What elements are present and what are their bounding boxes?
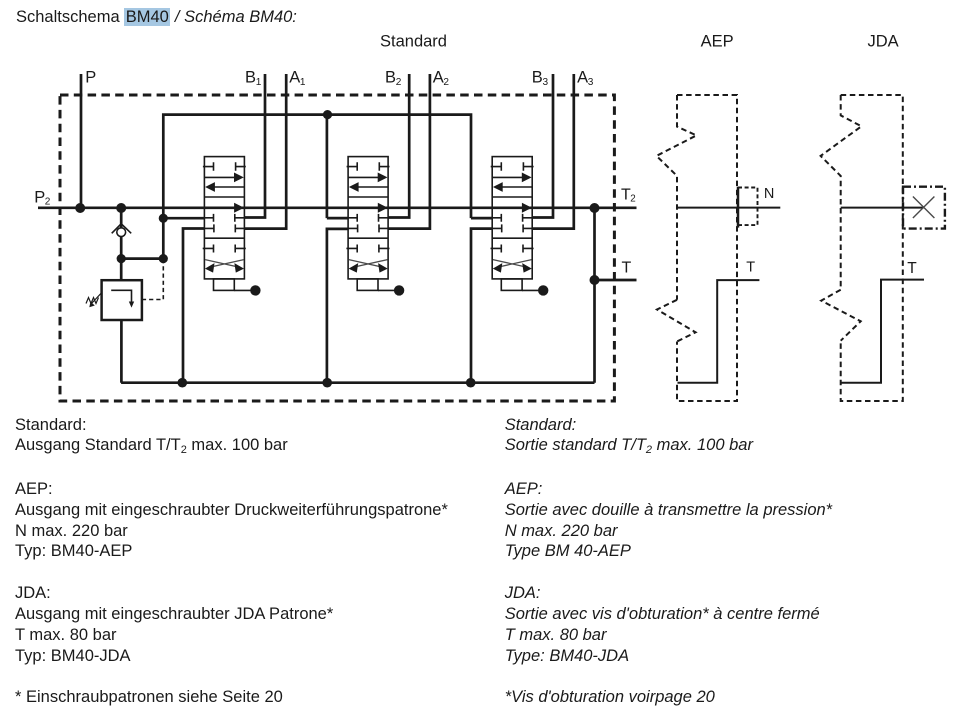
svg-text:2: 2 bbox=[45, 197, 51, 208]
svg-text:B: B bbox=[385, 69, 396, 87]
svg-text:1: 1 bbox=[300, 77, 306, 88]
svg-text:A: A bbox=[577, 69, 588, 87]
svg-text:3: 3 bbox=[588, 77, 594, 88]
svg-text:T: T bbox=[907, 260, 917, 277]
svg-text:B: B bbox=[532, 69, 543, 87]
svg-text:A: A bbox=[433, 69, 444, 87]
svg-text:Standard: Standard bbox=[380, 32, 447, 50]
svg-text:3: 3 bbox=[543, 77, 549, 88]
svg-text:N: N bbox=[764, 186, 774, 202]
svg-text:1: 1 bbox=[256, 77, 262, 88]
svg-text:A: A bbox=[289, 69, 300, 87]
svg-text:2: 2 bbox=[396, 77, 402, 88]
svg-text:T: T bbox=[746, 260, 755, 276]
svg-text:2: 2 bbox=[443, 77, 449, 88]
svg-text:JDA: JDA bbox=[868, 32, 899, 50]
svg-text:P: P bbox=[34, 188, 45, 206]
svg-text:B: B bbox=[245, 69, 256, 87]
svg-text:AEP: AEP bbox=[701, 32, 734, 50]
svg-text:T: T bbox=[622, 259, 632, 276]
svg-text:P: P bbox=[85, 69, 96, 87]
svg-text:2: 2 bbox=[630, 194, 635, 205]
